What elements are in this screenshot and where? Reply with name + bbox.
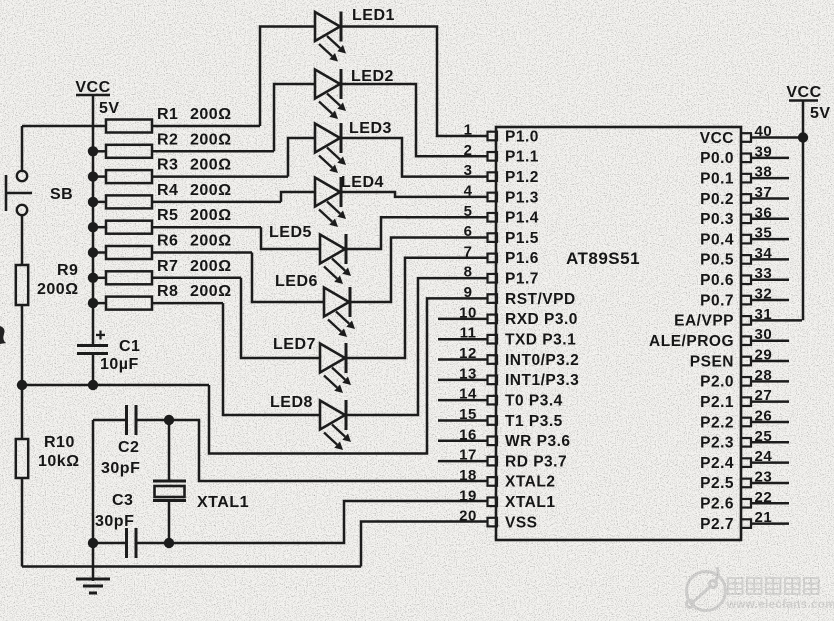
crystal XTAL1 <box>168 420 171 481</box>
wire R8 to LED8 anode <box>223 303 320 415</box>
LED LED7 <box>320 344 345 373</box>
resistor R4 200ohm <box>93 201 106 204</box>
svg-text:VCC: VCC <box>75 79 110 96</box>
junction rail-R5 <box>88 222 98 232</box>
wire R4 to LED4 anode <box>281 192 315 202</box>
svg-text:25: 25 <box>755 428 773 445</box>
svg-text:C3: C3 <box>112 492 133 509</box>
wire SB bottom to R9 <box>21 216 24 266</box>
resistor R6 200ohm <box>93 251 106 254</box>
svg-text:4: 4 <box>464 182 473 199</box>
svg-text:18: 18 <box>459 467 477 484</box>
pin 4 P1.3 <box>488 193 498 202</box>
svg-text:P2.3: P2.3 <box>700 435 734 452</box>
svg-text:P1.5: P1.5 <box>505 230 539 247</box>
svg-text:R5: R5 <box>157 207 178 224</box>
pin 14 T0 P3.4 <box>488 396 498 405</box>
pin 29 PSEN <box>741 357 751 366</box>
wire R1 to LED1 anode <box>260 27 315 127</box>
svg-text:2: 2 <box>464 142 473 159</box>
pin 24 P2.4 <box>741 458 751 467</box>
svg-text:P2.2: P2.2 <box>700 414 734 431</box>
junction C2-XTAL <box>164 415 174 425</box>
pin 13 INT1/P3.3 <box>488 376 498 385</box>
LED LED8 <box>320 401 345 430</box>
resistor R3 200ohm <box>93 175 106 178</box>
pin 25 P2.3 <box>741 438 751 447</box>
wire XTAL1 to pin19 <box>169 501 487 543</box>
svg-text:31: 31 <box>755 306 773 323</box>
svg-text:21: 21 <box>755 509 773 526</box>
svg-text:14: 14 <box>459 386 477 403</box>
svg-text:10: 10 <box>459 304 477 321</box>
capacitor C1 10uF polarity + <box>96 331 105 340</box>
svg-text:38: 38 <box>755 164 773 181</box>
wire VCC rail vertical <box>92 95 95 345</box>
svg-text:LED1: LED1 <box>352 7 395 24</box>
svg-text:TXD P3.1: TXD P3.1 <box>505 332 576 349</box>
op IC U1 AT89S51 body <box>496 127 741 540</box>
svg-text:AT89S51: AT89S51 <box>566 249 640 268</box>
svg-text:XTAL1: XTAL1 <box>505 494 555 511</box>
svg-text:LED4: LED4 <box>341 174 384 191</box>
resistor R9 200ohm <box>16 265 28 305</box>
wire XTAL2 to pin18 <box>169 420 487 481</box>
resistor R7 200ohm <box>93 277 106 280</box>
svg-text:www.elecfans.com: www.elecfans.com <box>726 599 834 611</box>
pin 21 P2.7 <box>741 519 751 528</box>
svg-text:P0.0: P0.0 <box>700 150 734 167</box>
pin 7 P1.6 <box>488 254 498 263</box>
svg-text:LED7: LED7 <box>273 336 316 353</box>
svg-text:LED5: LED5 <box>269 224 312 241</box>
pin 30 ALE/PROG <box>741 336 751 345</box>
svg-text:5: 5 <box>464 203 473 220</box>
pin 28 P2.0 <box>741 377 751 386</box>
svg-text:28: 28 <box>755 367 773 384</box>
svg-text:32: 32 <box>755 286 773 303</box>
svg-text:R6: R6 <box>157 233 178 250</box>
junction rail-R2 <box>88 146 98 156</box>
svg-text:9: 9 <box>464 284 473 301</box>
svg-text:P0.4: P0.4 <box>700 231 734 248</box>
wire ground branch vertical <box>92 420 95 581</box>
pin 36 P0.3 <box>741 214 751 223</box>
svg-text:12: 12 <box>459 345 477 362</box>
resistor R8 200ohm <box>93 302 106 305</box>
junction rail-R4 <box>88 197 98 207</box>
pin 15 T1 P3.5 <box>488 416 498 425</box>
pin 22 P2.6 <box>741 499 751 508</box>
pin 17 RD P3.7 <box>488 457 498 466</box>
svg-text:3: 3 <box>464 162 473 179</box>
svg-text:RXD P3.0: RXD P3.0 <box>505 311 578 328</box>
svg-text:30pF: 30pF <box>101 460 140 477</box>
svg-text:22: 22 <box>755 489 773 506</box>
svg-text:200Ω: 200Ω <box>190 106 232 123</box>
pin 31 EA/VPP <box>741 316 751 325</box>
svg-text:P1.1: P1.1 <box>505 149 539 166</box>
wire RST node horizontal <box>22 384 209 387</box>
resistor R2 200ohm <box>93 150 106 153</box>
pin 26 P2.2 <box>741 418 751 427</box>
svg-text:23: 23 <box>755 468 773 485</box>
pin 40 VCC <box>741 133 751 142</box>
svg-text:P1.3: P1.3 <box>505 189 539 206</box>
svg-text:P0.2: P0.2 <box>700 191 734 208</box>
pin 19 XTAL1 <box>488 497 498 506</box>
svg-text:35: 35 <box>755 225 773 242</box>
svg-text:5V: 5V <box>810 105 831 122</box>
pin 10 RXD P3.0 <box>488 315 498 324</box>
wire LED2 cathode to pin2 <box>342 84 487 156</box>
pin 8 P1.7 <box>488 274 498 283</box>
svg-text:17: 17 <box>459 447 477 464</box>
svg-text:200Ω: 200Ω <box>190 233 232 250</box>
svg-text:P0.3: P0.3 <box>700 211 734 228</box>
svg-text:P2.0: P2.0 <box>700 374 734 391</box>
svg-text:29: 29 <box>755 347 773 364</box>
svg-text:ALE/PROG: ALE/PROG <box>649 333 734 350</box>
wire SB top <box>21 126 24 171</box>
svg-text:R7: R7 <box>157 258 178 275</box>
junction rail-R8 <box>88 298 98 308</box>
svg-text:200Ω: 200Ω <box>190 182 232 199</box>
resistor R10 10kohm <box>16 439 28 478</box>
svg-text:200Ω: 200Ω <box>190 157 232 174</box>
svg-text:VSS: VSS <box>505 514 538 531</box>
wire R9 to RST node <box>21 305 24 385</box>
svg-text:P2.7: P2.7 <box>700 516 734 533</box>
capacitor C2 30pF <box>93 419 125 422</box>
svg-text:P1.7: P1.7 <box>505 271 539 288</box>
svg-text:10kΩ: 10kΩ <box>38 453 80 470</box>
pushbutton SB <box>17 171 27 181</box>
svg-text:10µF: 10µF <box>100 356 139 373</box>
wire LED7 cathode to pin7 <box>347 258 487 358</box>
svg-text:RST/VPD: RST/VPD <box>505 291 576 308</box>
pin 33 P0.6 <box>741 275 751 284</box>
svg-text:R4: R4 <box>157 182 178 199</box>
svg-text:P2.4: P2.4 <box>700 455 734 472</box>
svg-text:INT1/P3.3: INT1/P3.3 <box>505 372 579 389</box>
svg-text:VCC: VCC <box>786 84 821 101</box>
wire R7 to LED7 anode <box>241 278 320 358</box>
svg-text:P1.0: P1.0 <box>505 128 539 145</box>
svg-text:VCC: VCC <box>700 130 734 147</box>
svg-text:LED3: LED3 <box>349 120 392 137</box>
svg-text:P1.6: P1.6 <box>505 250 539 267</box>
svg-text:P0.5: P0.5 <box>700 252 734 269</box>
svg-text:R8: R8 <box>157 283 178 300</box>
wire RST to pin9 <box>209 298 487 453</box>
svg-text:200Ω: 200Ω <box>190 131 232 148</box>
wire VSS pin20 <box>361 522 487 567</box>
LED LED3 <box>315 124 340 153</box>
svg-text:36: 36 <box>755 204 773 221</box>
svg-text:LED8: LED8 <box>270 394 313 411</box>
pin 38 P0.1 <box>741 174 751 183</box>
wire LED8 cathode to pin8 <box>347 278 487 415</box>
wire C1 bottom <box>92 354 95 386</box>
svg-text:C2: C2 <box>118 439 139 456</box>
pin 6 P1.5 <box>488 233 498 242</box>
svg-text:R10: R10 <box>44 434 75 451</box>
svg-text:39: 39 <box>755 143 773 160</box>
pin 2 P1.1 <box>488 152 498 161</box>
wire LED4 cathode to pin4 <box>342 192 487 197</box>
svg-text:P2.1: P2.1 <box>700 394 734 411</box>
pin 32 P0.7 <box>741 296 751 305</box>
svg-text:R3: R3 <box>157 157 178 174</box>
svg-text:P2.5: P2.5 <box>700 475 734 492</box>
junction C3-ground <box>88 538 98 548</box>
LED LED5 <box>320 235 345 264</box>
svg-text:8: 8 <box>464 264 473 281</box>
wire LED6 cathode to pin6 <box>351 238 487 303</box>
svg-text:EA/VPP: EA/VPP <box>674 313 734 330</box>
pin 1 P1.0 <box>488 132 498 141</box>
wire RST to R10 <box>21 385 24 439</box>
pin 11 TXD P3.1 <box>488 335 498 344</box>
svg-text:16: 16 <box>459 426 477 443</box>
wire ground rail <box>22 565 361 568</box>
pin 39 P0.0 <box>741 154 751 163</box>
pin 9 RST/VPD <box>488 294 498 303</box>
LED LED4 <box>315 178 340 207</box>
junction rail-R6 <box>88 247 98 257</box>
junction rail-R7 <box>88 273 98 283</box>
svg-text:15: 15 <box>459 406 477 423</box>
svg-text:11: 11 <box>460 325 477 342</box>
svg-text:13: 13 <box>459 365 477 382</box>
svg-text:24: 24 <box>755 448 773 465</box>
pin 18 XTAL2 <box>488 477 498 486</box>
svg-text:200Ω: 200Ω <box>190 283 232 300</box>
svg-text:P1.4: P1.4 <box>505 210 539 227</box>
pin 37 P0.2 <box>741 194 751 203</box>
pin 3 P1.2 <box>488 172 498 181</box>
wire R5 to LED5 anode <box>261 227 320 249</box>
LED LED6 <box>324 288 349 317</box>
svg-text:33: 33 <box>755 265 773 282</box>
svg-text:27: 27 <box>755 387 773 404</box>
svg-text:R1: R1 <box>157 106 178 123</box>
resistor R5 200ohm <box>93 226 106 229</box>
svg-text:26: 26 <box>755 407 773 424</box>
ground <box>76 578 110 581</box>
svg-text:34: 34 <box>755 245 773 262</box>
svg-text:200Ω: 200Ω <box>37 281 79 298</box>
junction C3-XTAL <box>164 538 174 548</box>
wire R6 to LED6 anode <box>252 253 324 303</box>
svg-text:6: 6 <box>464 223 473 240</box>
svg-text:XTAL2: XTAL2 <box>505 474 555 491</box>
svg-text:37: 37 <box>755 184 773 201</box>
capacitor C3 30pF <box>93 542 125 545</box>
pin 23 P2.5 <box>741 479 751 488</box>
wire LED3 cathode to pin3 <box>342 138 487 177</box>
svg-text:P0.6: P0.6 <box>700 272 734 289</box>
svg-text:RD P3.7: RD P3.7 <box>505 453 567 470</box>
svg-text:LED2: LED2 <box>351 68 394 85</box>
wire LED1 cathode to pin1 <box>342 27 487 137</box>
svg-text:SB: SB <box>50 186 73 203</box>
svg-text:XTAL1: XTAL1 <box>197 494 249 511</box>
wire R2 to LED2 anode <box>274 84 315 151</box>
svg-text:30pF: 30pF <box>95 513 134 530</box>
wire R10 to ground rail <box>21 478 24 567</box>
svg-text:R2: R2 <box>157 131 178 148</box>
junction rail-R3 <box>88 171 98 181</box>
svg-text:LED6: LED6 <box>275 273 318 290</box>
svg-text:P0.7: P0.7 <box>700 292 734 309</box>
svg-text:T1 P3.5: T1 P3.5 <box>505 413 563 430</box>
pin 27 P2.1 <box>741 397 751 406</box>
svg-text:20: 20 <box>459 508 477 525</box>
pin 12 INT0/P3.2 <box>488 355 498 364</box>
pin 5 P1.4 <box>488 213 498 222</box>
resistor R1 200ohm <box>106 120 152 133</box>
svg-text:PSEN: PSEN <box>690 353 734 370</box>
junction RST-C1 <box>88 380 98 390</box>
svg-text:1: 1 <box>464 122 473 139</box>
svg-text:5V: 5V <box>99 100 120 117</box>
svg-text:40: 40 <box>755 123 773 140</box>
svg-text:30: 30 <box>755 326 773 343</box>
svg-text:P0.1: P0.1 <box>700 170 734 187</box>
wire R3 to LED3 anode <box>288 138 315 177</box>
decorative watermark (not labelled further) <box>686 567 725 611</box>
svg-text:WR P3.6: WR P3.6 <box>505 433 571 450</box>
junction VCC-pin40 <box>798 132 808 142</box>
wire LED5 cathode to pin5 <box>347 217 487 249</box>
svg-text:7: 7 <box>464 243 473 260</box>
svg-text:T0 P3.4: T0 P3.4 <box>505 392 563 409</box>
svg-text:19: 19 <box>459 487 477 504</box>
svg-text:C1: C1 <box>119 338 140 355</box>
pin 34 P0.5 <box>741 255 751 264</box>
LED LED1 <box>315 12 340 41</box>
LED LED2 <box>315 70 340 99</box>
svg-text:P2.6: P2.6 <box>700 496 734 513</box>
junction RST-left <box>17 380 27 390</box>
wire VCC to SB and R1 row <box>22 125 106 128</box>
wire VCC right vertical <box>802 101 805 321</box>
svg-text:R9: R9 <box>57 262 78 279</box>
pin 35 P0.4 <box>741 235 751 244</box>
svg-text:P1.2: P1.2 <box>505 169 539 186</box>
pin 20 VSS <box>488 518 498 527</box>
svg-text:INT0/P3.2: INT0/P3.2 <box>505 352 579 369</box>
pin 16 WR P3.6 <box>488 437 498 446</box>
svg-text:200Ω: 200Ω <box>190 258 232 275</box>
scan artifact left edge <box>0 326 6 344</box>
svg-text:200Ω: 200Ω <box>190 207 232 224</box>
